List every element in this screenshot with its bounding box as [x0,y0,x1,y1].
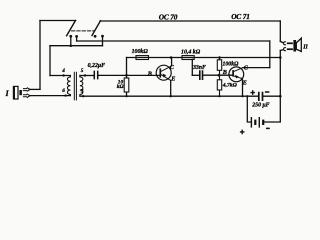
transistor Q2 emitter arrow [235,75,239,79]
jack II upper stub [280,41,283,42]
wire left vertical x=40 [39,21,41,90]
input jack I lower prong fork [23,95,27,97]
switch S1 arm left [67,21,76,36]
earphone pin lower [287,48,293,50]
transistor Q2 OC71 circle [229,67,244,82]
wire switch contact1 drop [70,36,72,45]
output jack II upper contact c [284,42,286,45]
node Q2 base junction [218,74,221,77]
svg-text:33nF: 33nF [192,65,206,71]
svg-text:OC 71: OC 71 [231,12,250,21]
input jack I lower prong chevron [27,94,30,98]
wire vertical x=126.5 lower [126,92,128,96]
transistor Q1 OC70 circle [156,65,171,80]
input jack I barrel outline [14,86,18,99]
wire 4,7kOhm leads [219,75,221,96]
output jack II lower contact c [284,48,286,51]
node Q2 emitter bottom [241,95,243,97]
resistor 100kOhm first stage [136,56,149,60]
node 100k-v top junction [218,56,221,59]
capacitor 0.22uF plates [94,71,97,80]
node Q1 collector junction [170,56,173,59]
label minus battery [266,127,270,129]
wire 33nF to cap [192,74,199,76]
transistor Q2 emitter lead [234,76,242,78]
resistor 100kOhm Q2 bias vertical [217,60,221,71]
svg-text:OC 70: OC 70 [159,12,178,21]
wire battery right lead [264,96,281,122]
label plus battery [240,130,245,135]
switch S1 arm right [92,21,101,36]
wire switch lower y=45.7 [50,45,103,47]
transistor Q1 base bar [159,68,161,77]
transistor Q2 collector lead [234,68,243,72]
transistor Q2 base bar [232,70,234,77]
svg-text:E: E [242,80,247,87]
wire vertical x=126.5 upper [126,58,128,79]
svg-text:II: II [302,44,308,50]
wire switch contact4 drop [102,36,104,46]
wire 0.22uF left lead gap [93,74,95,76]
node Q1 emitter bottom [170,95,172,97]
node transformer pin 4 [62,74,64,76]
switch S1 linkage dashed [72,30,94,32]
capacitor 250uF plates [259,92,263,101]
wire top rail [100,20,280,22]
resistor 10kOhm vertical [124,78,129,92]
battery B1 plate short 2 [262,120,264,125]
wire vertical x=269.8 [269,41,271,68]
input jack I center block [19,90,22,95]
svg-text:C: C [170,64,175,71]
node transformer pin 3 [82,95,84,97]
input jack I upper prong chevron [27,88,30,92]
wire top-left to switch [40,20,76,22]
node switch contact 3 [94,35,97,38]
wire transformer terminal 4 [50,75,70,77]
label minus 250uF [265,91,270,93]
node 4.7k bottom [218,95,220,97]
wire Q1 emitter riser [170,80,172,96]
svg-text:250 μF: 250 μF [251,102,269,108]
transistor Q1 collector lead [161,66,172,72]
svg-text:I: I [5,89,10,98]
node 10k bottom [125,95,127,97]
svg-text:B: B [147,70,152,77]
svg-text:0,22μF: 0,22μF [88,63,106,69]
wire vertical x=50 to transformer [49,46,51,76]
wire rail y=41 switch to Q2 collector [77,40,270,42]
svg-text:100kΩ: 100kΩ [223,61,240,67]
svg-text:B: B [222,69,227,76]
wire Q1 collector riser [171,58,173,66]
transformer T1 primary coil [67,76,70,96]
node transformer pin 6 [64,94,66,96]
battery B1 plate long 2 [258,117,260,128]
svg-text:E: E [170,75,175,82]
wire Q2 emitter riser [241,78,242,96]
node cap junction x=126.5 [125,74,128,77]
wire bottom rail right of 250uF [263,95,280,97]
node switch contact 2 [75,35,78,38]
wire right vertical lower segment [279,50,281,96]
node right vertical mid rail [279,56,282,59]
wire switch contact2 drop [76,36,78,41]
node switch lower junction [70,44,73,47]
battery B1 plate long 1 [250,117,252,128]
svg-text:10,4 kΩ: 10,4 kΩ [181,50,201,56]
wire cap 0.22 to Q1 base [98,74,160,76]
svg-text:100kΩ: 100kΩ [132,49,149,55]
resistor 10,4kOhm [182,56,194,60]
node switch contact 4 [101,35,104,38]
earphone horn [296,38,301,51]
wire transformer terminal 5 [80,75,94,77]
svg-text:4: 4 [61,68,65,74]
wire 100kOhm-v bottom lead [219,70,221,75]
wire battery left riser [247,96,251,122]
wire 100kOhm-v top lead [219,58,221,60]
svg-text:6: 6 [62,88,65,94]
node battery riser junction [246,95,248,97]
transformer T1 core [74,72,76,101]
svg-text:4,7kΩ: 4,7kΩ [222,83,238,89]
earphone bar [293,40,296,52]
resistor 4,7kOhm vertical [217,80,221,90]
transformer T1 secondary coil [80,76,83,97]
wire right vertical upper segment [279,21,281,41]
battery B1 plate short 1 [254,120,256,125]
wire bottom rail [80,95,258,97]
wire Q2 collector horizontal [243,67,270,69]
wire Q2 base node [203,74,233,76]
capacitor 33nF plates [200,70,203,80]
transistor Q1 emitter arrow [163,74,167,78]
label plus 250uF [250,90,255,95]
input jack I barrel thick left wall [13,86,15,99]
wire jack lower prong to terminal 6 [30,95,71,97]
wire jack upper prong [30,88,40,90]
svg-text:3: 3 [80,89,84,95]
svg-text:kΩ: kΩ [117,84,124,90]
earphone pin upper [287,42,293,44]
input jack I upper prong fork [23,89,27,91]
node transformer pin 5 [84,74,86,76]
wire 33nF drop from rail [191,59,193,75]
wire mid rail y=57.5 [127,57,281,59]
transistor Q1 emitter lead [161,75,171,81]
node switch contact 1 [69,35,72,38]
jack II lower stub [280,49,283,52]
node right vertical bottom rail [279,95,282,98]
svg-text:5: 5 [81,68,84,74]
